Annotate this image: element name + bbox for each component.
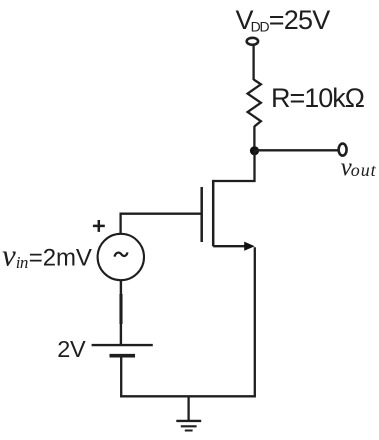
node drain junction <box>250 146 259 155</box>
label vout <box>341 154 377 181</box>
wire node down to drain corner <box>213 151 254 181</box>
label vin=2mV <box>2 237 92 272</box>
wire ground stub <box>187 396 189 421</box>
transistor Q1 source lead with arrow <box>213 242 255 251</box>
wire node to vout terminal <box>255 149 339 151</box>
transistor Q1 channel bar <box>212 180 215 246</box>
bottom rail wire <box>120 395 256 397</box>
terminal vout <box>339 144 347 156</box>
svg-text:R=10kΩ: R=10kΩ <box>271 83 365 113</box>
AC source V1 <box>98 234 144 280</box>
svg-text:=25V: =25V <box>269 5 330 35</box>
battery B1 short plate <box>110 354 136 358</box>
wire gate to AC source <box>121 214 201 235</box>
transistor Q1 gate bar <box>200 187 203 242</box>
svg-text:=2mV: =2mV <box>29 245 92 272</box>
svg-text:in: in <box>16 253 28 272</box>
label VDD=25V <box>236 5 331 35</box>
AC source tilde <box>114 252 127 256</box>
battery B1 long plate <box>92 344 153 346</box>
svg-text:out: out <box>351 160 377 180</box>
plus sign <box>93 220 105 232</box>
resistor R1 <box>248 80 261 127</box>
wire VDD terminal to resistor <box>252 45 254 80</box>
svg-text:v: v <box>2 237 16 272</box>
wire AC source to battery <box>120 280 122 345</box>
ground <box>176 421 201 431</box>
svg-text:DD: DD <box>251 19 270 35</box>
wire source down to bottom rail <box>254 247 256 396</box>
terminal VDD <box>247 38 258 45</box>
wire battery to bottom rail <box>120 356 122 398</box>
svg-text:2V: 2V <box>57 336 86 362</box>
wire resistor to node <box>253 126 255 151</box>
